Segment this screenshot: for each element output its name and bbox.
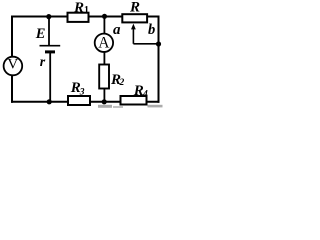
svg-text:b: b [148, 22, 155, 38]
artifact smudges bottom [98, 105, 112, 108]
svg-text:r: r [40, 55, 46, 70]
svg-text:a: a [113, 22, 121, 38]
rheostat wiper arrow [131, 24, 136, 30]
svg-text:V: V [7, 57, 18, 73]
svg-text:A: A [98, 35, 110, 52]
node ammeter top [102, 14, 107, 19]
resistor R2 [99, 65, 109, 89]
svg-text:3: 3 [79, 87, 85, 97]
svg-text:4: 4 [142, 90, 148, 100]
svg-text:R: R [129, 0, 140, 16]
wire battery branch lower [49, 52, 51, 102]
resistor R1 [68, 13, 89, 22]
voltmeter V [4, 57, 23, 76]
resistor R4 [121, 96, 147, 105]
svg-text:E: E [35, 26, 46, 42]
battery E short plate [45, 50, 55, 53]
node battery bottom [47, 99, 52, 104]
wire wiper to right rail [133, 43, 158, 45]
node wiper right [156, 41, 161, 46]
wire battery branch upper [48, 17, 50, 46]
wire right rail [158, 16, 160, 103]
svg-text:2: 2 [119, 78, 125, 88]
wire bottom rail [11, 101, 160, 103]
wire R2 to bottom rail [103, 89, 105, 102]
wire ammeter to R2 [103, 51, 105, 66]
node battery top [46, 14, 51, 19]
resistor R3 [68, 96, 90, 105]
battery E long plate [40, 45, 61, 47]
wire left rail [11, 16, 13, 103]
svg-text:1: 1 [84, 5, 89, 16]
wire ammeter branch upper [103, 16, 105, 35]
svg-text:R: R [73, 0, 84, 16]
ammeter A [95, 34, 113, 52]
rheostat R body [122, 14, 147, 22]
wire top rail [11, 16, 160, 18]
node R2 bottom [102, 99, 107, 104]
